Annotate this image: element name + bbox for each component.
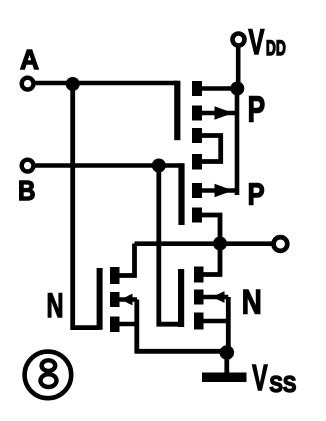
transistor Q3 NMOS gate bar (input A, left): [97, 268, 103, 330]
transistor Q3 drain contact: [110, 267, 120, 284]
wire Q3 source to VSS drop: [118, 322, 137, 327]
wire Q3 to VSS junction: [137, 300, 226, 352]
svg-text:P: P: [248, 89, 266, 130]
node B terminal circle: [22, 160, 34, 172]
output terminal circle: [274, 237, 288, 251]
svg-text:N: N: [47, 287, 64, 325]
node VDD junction dot: [230, 82, 244, 96]
wire Q2 source down to output: [200, 215, 220, 244]
VDD terminal circle: [233, 34, 245, 46]
svg-text:DD: DD: [266, 37, 286, 60]
node output junction dot: [213, 237, 227, 251]
ground VSS bar: [202, 373, 247, 383]
transistor Q1 source contact: [192, 128, 202, 143]
transistor Q4 NMOS gate bar (input B, right): [178, 269, 184, 327]
node A terminal circle: [22, 78, 34, 90]
svg-text:B: B: [18, 175, 36, 206]
wire VSS stub: [224, 353, 229, 374]
svg-text:SS: SS: [269, 371, 296, 397]
svg-text:V: V: [248, 23, 264, 62]
transistor Q1 substrate contact: [192, 106, 202, 121]
svg-text:P: P: [248, 176, 265, 211]
wire Q1 substrate to rail: [200, 111, 235, 115]
wire VDD down: [236, 46, 241, 90]
node VSS junction dot: [220, 345, 235, 360]
transistor Q2 PMOS gate bar (input B): [178, 163, 184, 225]
transistor Q3 substrate contact: [110, 292, 120, 307]
wire Q1 source jog down to Q2 drain: [200, 136, 221, 162]
wire Q4 down to VSS junction: [226, 297, 231, 353]
wire output down-left to left NMOS drain: [120, 244, 135, 276]
wire output horizontal: [135, 241, 273, 246]
wire Q2 substrate to rail: [200, 188, 235, 192]
wire B horizontal: [34, 163, 182, 168]
wire A horizontal: [34, 81, 178, 86]
wire Q3 substrate to VSS drop: [118, 297, 137, 301]
figure number circled 8: [25, 352, 72, 399]
transistor Q2 drain contact: [192, 154, 202, 170]
transistor Q3 source contact: [110, 317, 120, 333]
label VSS: [252, 357, 296, 398]
wire Q1 drain to VDD junction: [200, 86, 233, 91]
Q3 substrate arrow (N): [121, 294, 133, 306]
label VDD: [248, 23, 286, 62]
wire B vertical down to right NMOS gate: [159, 166, 181, 325]
svg-text:N: N: [242, 284, 262, 322]
wire substrate rail (VDD): [235, 89, 240, 195]
svg-text:A: A: [20, 44, 39, 75]
transistor Q4 source contact: [194, 313, 204, 330]
transistor Q1 drain contact: [192, 81, 202, 96]
node A junction dot: [66, 77, 80, 91]
transistor Q2 source contact: [192, 208, 202, 223]
transistor Q2 substrate contact: [192, 183, 202, 198]
Q4 substrate arrow (N): [212, 291, 225, 303]
transistor Q1 PMOS gate bar (input A): [174, 81, 180, 141]
node B junction dot: [152, 159, 166, 173]
transistor Q4 substrate contact: [194, 290, 204, 305]
Q1 substrate arrow (P): [215, 106, 234, 119]
wire A vertical down to left NMOS gate: [73, 84, 100, 328]
transistor Q4 drain contact: [194, 267, 204, 283]
svg-text:V: V: [252, 357, 268, 398]
wire output down to right NMOS drain: [204, 244, 221, 275]
wire Q4 source to VSS drop: [202, 319, 228, 324]
wire Q4 substrate to VSS drop: [202, 295, 228, 299]
Q2 substrate arrow (P): [215, 184, 234, 197]
